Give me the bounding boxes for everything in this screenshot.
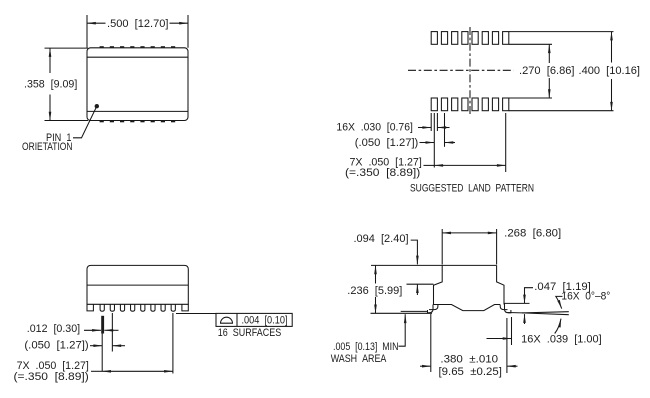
right end tab: [182, 304, 188, 311]
bottom pin bumps: [100, 121, 176, 123]
pad1 left edge witness: [430, 113, 432, 131]
svg-text:16X .030 [0.76]: 16X .030 [0.76]: [336, 122, 413, 134]
svg-text:[9.65 ±0.25]: [9.65 ±0.25]: [439, 366, 502, 378]
body top edge line: [87, 56, 188, 58]
right lead hook: [500, 304, 511, 313]
dim (.050) arrow left: [90, 345, 102, 347]
dim .268 extension right: [496, 229, 498, 265]
body top edge with left extension: [371, 264, 497, 266]
svg-text:(=.350 [8.89]): (=.350 [8.89]): [345, 167, 420, 179]
top pin bumps: [100, 46, 176, 48]
dim (.050) arrow right: [112, 345, 125, 347]
left end tab: [87, 304, 93, 311]
dim 7X .050 leader: [91, 370, 102, 372]
dim .380 extension left: [430, 314, 432, 372]
dim .268 extension left: [441, 229, 443, 265]
dim .500 arrow right: [170, 22, 189, 24]
svg-text:.005 [0.13] MIN: .005 [0.13] MIN: [333, 341, 399, 353]
dim .500 extension line right: [187, 15, 189, 48]
dim .039 arrow: [487, 338, 512, 340]
svg-text:16X 0°–8°: 16X 0°–8°: [561, 291, 610, 303]
dim (.050) arrow left: [420, 142, 435, 144]
pad1 right edge witness: [436, 113, 438, 131]
svg-text:.270 [6.86]: .270 [6.86]: [519, 65, 575, 77]
svg-text:16X .039 [1.00]: 16X .039 [1.00]: [521, 334, 602, 346]
dim .270 extension line bottom: [509, 97, 552, 99]
left foot top line: [401, 310, 428, 312]
dim .500 arrow left: [87, 22, 106, 24]
svg-text:WASH AREA: WASH AREA: [331, 353, 387, 365]
body outline: [87, 265, 188, 304]
dim 7X .050 line: [434, 164, 505, 166]
dim .400 arrow up: [611, 32, 613, 63]
dim .012 arrow right: [104, 329, 118, 331]
pin 1 leader line: [73, 108, 96, 138]
dim .400 arrow down: [611, 79, 613, 111]
top pad row: [431, 32, 509, 45]
dim .358 line lower segment: [49, 95, 51, 121]
dim .358 extension line bottom: [45, 120, 89, 122]
right foot wedge upper line: [522, 312, 569, 313]
dim .270 extension line top: [509, 43, 552, 45]
bottom pad row: [431, 98, 509, 111]
pad1 center witness: [433, 113, 435, 168]
package body outline: [87, 48, 188, 121]
svg-text:16 SURFACES: 16 SURFACES: [218, 327, 281, 339]
svg-text:(=.350 [8.89]): (=.350 [8.89]): [14, 371, 89, 383]
angle leader lower arc: [555, 319, 561, 334]
left seating plane line: [371, 312, 433, 314]
angle leader upper arc: [556, 296, 563, 308]
svg-text:.236 [5.99]: .236 [5.99]: [347, 285, 402, 297]
svg-text:.004 [0.10]: .004 [0.10]: [242, 315, 288, 327]
dim .047 up arrow: [524, 314, 526, 324]
dim .012 witness bar: [101, 316, 104, 334]
svg-text:.400 [10.16]: .400 [10.16]: [579, 65, 641, 77]
dim .270 arrow down: [548, 78, 550, 98]
wash area leader: [399, 314, 406, 346]
dim .030 arrow left: [418, 127, 431, 129]
svg-text:(.050 [1.27]): (.050 [1.27]): [24, 340, 88, 352]
svg-text:.358 [9.09]: .358 [9.09]: [24, 79, 77, 91]
dim .236 arrow down: [375, 297, 377, 313]
body edge line: [87, 284, 188, 286]
bottom face with center recess: [434, 305, 501, 311]
dim .047 extension line: [504, 302, 530, 304]
dim .380 arrow right: [507, 365, 518, 367]
dim .030 arrow right: [437, 127, 449, 129]
svg-text:7X .050 [1.27]: 7X .050 [1.27]: [17, 360, 89, 372]
flatness callout leader: [176, 313, 216, 315]
pins (side view): [100, 304, 175, 311]
feature control frame: [216, 313, 292, 326]
dim .270 arrow up: [548, 44, 550, 63]
horizontal centerline: [408, 69, 514, 71]
pad2 center witness: [444, 113, 446, 147]
svg-text:.380 ±.010: .380 ±.010: [440, 354, 498, 366]
dim .094 leader with down arrow: [411, 240, 418, 264]
pin2 center witness: [111, 313, 113, 352]
pin 1 marker dot: [95, 104, 99, 108]
dim .094 up arrow: [416, 284, 418, 295]
dim (.050) arrow right: [445, 142, 456, 144]
dim 7X .050 line: [102, 370, 173, 372]
svg-text:.268 [6.80]: .268 [6.80]: [504, 228, 561, 240]
dim .047 leader tick: [525, 288, 534, 304]
left lead hook: [428, 305, 438, 313]
svg-text:.012 [0.30]: .012 [0.30]: [27, 323, 80, 335]
toe witness line: [511, 317, 513, 345]
dim .400 extension line top: [509, 31, 614, 33]
dim .236 arrow up: [375, 265, 377, 283]
svg-text:.094 [2.40]: .094 [2.40]: [354, 233, 409, 245]
dim .380 arrow left: [420, 365, 431, 367]
dim .380 extension right: [506, 318, 508, 373]
dim 7X .050 leader: [424, 164, 435, 166]
pin1 center witness: [101, 334, 103, 372]
upper body block: [434, 265, 505, 304]
dim .358 extension line top: [45, 47, 89, 49]
pad8 center witness: [505, 113, 507, 172]
svg-text:ORIETATION: ORIETATION: [22, 141, 73, 153]
svg-text:.500 [12.70]: .500 [12.70]: [107, 18, 169, 30]
right foot wedge lower line: [522, 313, 569, 315]
profile of a surface symbol: [221, 317, 233, 323]
pin8 center witness: [172, 313, 174, 374]
dim .358 line upper segment: [49, 48, 51, 73]
vertical centerline: [469, 27, 471, 116]
dim .268 line: [442, 232, 496, 234]
dim .500 extension line left: [86, 15, 88, 48]
dim .400 extension line bottom: [509, 110, 614, 112]
dim .012 arrow left: [84, 329, 101, 331]
svg-text:(.050 [1.27]): (.050 [1.27]): [355, 137, 419, 149]
body bottom edge line: [87, 110, 188, 112]
svg-text:SUGGESTED LAND PATTERN: SUGGESTED LAND PATTERN: [410, 182, 534, 194]
right foot line: [507, 312, 522, 314]
step extension line left: [407, 283, 434, 285]
